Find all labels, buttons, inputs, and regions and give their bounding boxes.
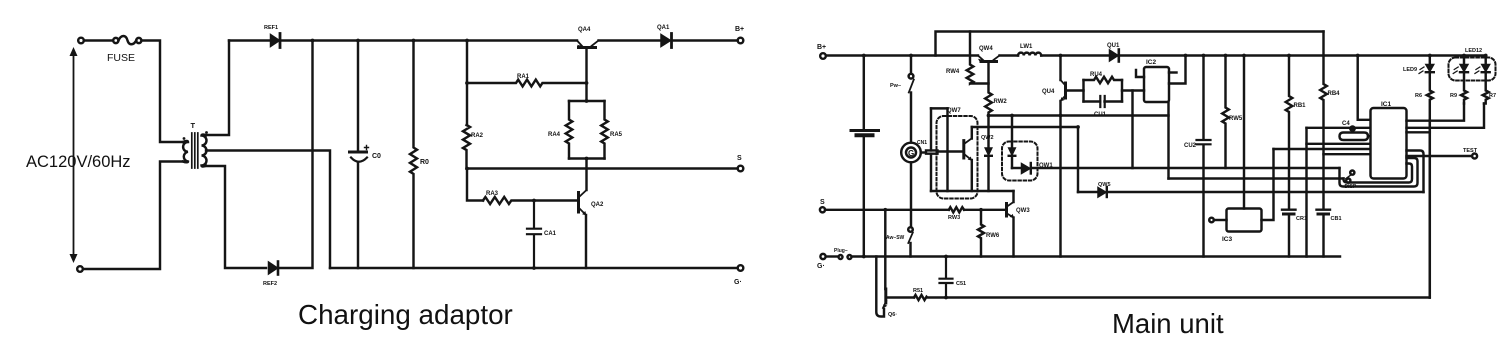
top rail: [826, 54, 978, 56]
svg-text:AC120V/60Hz: AC120V/60Hz: [26, 153, 131, 171]
inner column: [946, 108, 948, 191]
resistor network RA4 RA5 top bar: [569, 100, 605, 102]
diode QA1: [661, 35, 671, 47]
capacitor C4: [1349, 125, 1356, 132]
phase dot secondary: [205, 131, 208, 134]
CN1 column up: [930, 108, 932, 150]
svg-text:QA1: QA1: [657, 25, 670, 31]
battery B1: [863, 56, 865, 130]
capacitor CN1: [921, 151, 926, 153]
svg-text:R6: R6: [1415, 93, 1422, 99]
transformer primary winding: [183, 141, 188, 162]
svg-text:QW2: QW2: [981, 135, 994, 141]
svg-text:R0: R0: [420, 159, 429, 166]
svg-text:RA4: RA4: [548, 132, 561, 138]
transistor Q6 column: [884, 210, 886, 289]
svg-text:B+: B+: [735, 26, 744, 33]
svg-text:C51: C51: [956, 281, 966, 287]
LEFT-CIRCUIT: [26, 25, 744, 287]
diode QW5: [1098, 188, 1106, 198]
capacitor C51: [944, 255, 948, 259]
svg-text:QU1: QU1: [1107, 43, 1120, 49]
top rail QW4 to LW1: [1000, 54, 1019, 56]
svg-text:Q6·: Q6·: [888, 312, 897, 318]
long return riser: [1429, 120, 1431, 298]
emitter link line: [931, 190, 1014, 192]
svg-text:CA1: CA1: [544, 231, 557, 237]
diode QW1: [1012, 167, 1021, 169]
resistor RA2: [463, 125, 470, 169]
fuse F1: [113, 38, 118, 43]
svg-text:FUSE: FUSE: [107, 52, 135, 64]
QW7 emitter wire: [971, 160, 973, 191]
C4 loop: [1340, 133, 1369, 141]
svg-text:G: G: [908, 149, 914, 158]
phase dot primary: [183, 137, 186, 140]
QU4 emitter column: [1059, 101, 1061, 257]
svg-text:QW5: QW5: [1098, 182, 1111, 188]
diode REF2: [269, 262, 278, 274]
transistor Q6: [884, 289, 887, 303]
terminal B+: [820, 53, 826, 59]
S line with resistor RW3: [825, 209, 949, 211]
top rail QA1 to B+: [673, 39, 738, 41]
RC combo right bar: [1121, 80, 1123, 102]
capacitor CU1: [1084, 100, 1123, 102]
svg-text:CB1: CB1: [1331, 216, 1342, 222]
resistor RW4: [967, 32, 989, 84]
resistor RU4: [1084, 77, 1123, 83]
svg-text:LW1: LW1: [1020, 44, 1033, 50]
junction dots top rail: [311, 39, 315, 43]
svg-text:RW4: RW4: [946, 69, 960, 75]
transistor QU4: [1059, 56, 1061, 81]
resistor RA5: [601, 101, 608, 159]
svg-text:RB1: RB1: [1294, 103, 1307, 109]
LED10 column: [1463, 56, 1465, 65]
IC2: [1144, 67, 1169, 102]
svg-text:LED9: LED9: [1403, 67, 1417, 73]
wire primary bottom to AC bottom: [83, 162, 183, 270]
QW7 collector wire: [971, 127, 973, 139]
svg-text:QU4: QU4: [1042, 89, 1055, 95]
AC source terminal top: [78, 38, 84, 44]
inductor LW1: [1018, 53, 1041, 56]
QU4 base wire: [1066, 89, 1084, 91]
resistor R0: [410, 41, 417, 269]
loop bus2 wrap: [1344, 164, 1413, 183]
collector link line: [972, 126, 1078, 128]
diode REF1: [271, 35, 280, 47]
IC2 pin stub right: [1169, 71, 1177, 73]
AC source terminal bottom: [77, 266, 83, 272]
svg-text:IC1: IC1: [1381, 101, 1392, 108]
resistor RW6: [979, 208, 983, 212]
wire fuse to transformer primary: [142, 41, 184, 143]
IC1: [1371, 108, 1407, 179]
IC3 left terminal: [1209, 218, 1214, 223]
C4 line: [1307, 127, 1371, 129]
svg-text:RB4: RB4: [1328, 91, 1341, 97]
top rail LW1 to QU1: [1041, 54, 1109, 56]
svg-text:RA2: RA2: [471, 133, 484, 139]
TEST line: [1407, 155, 1473, 157]
motor to auto switch: [910, 162, 912, 227]
svg-text:R7: R7: [1489, 93, 1496, 99]
svg-text:QW4: QW4: [979, 46, 993, 52]
svg-text:RA5: RA5: [610, 132, 623, 138]
bottom rail right segment: [330, 267, 738, 269]
bus line 3: [1078, 191, 1097, 193]
IC3: [1227, 209, 1262, 232]
transistor QW4: [978, 56, 983, 61]
svg-text:S: S: [820, 199, 825, 206]
top rail QU1 to right end: [1120, 54, 1486, 56]
svg-text:QW3: QW3: [1016, 208, 1030, 214]
transformer secondary winding: [202, 135, 207, 167]
terminal G-: [738, 265, 744, 271]
top rail left segment: [229, 39, 269, 41]
diode QW2: [985, 148, 992, 155]
AC source arrow: [73, 50, 75, 260]
terminal G- with plug: [820, 254, 825, 259]
wire secondary bottom down to REF2 rail: [206, 166, 266, 268]
top feedback line: [936, 32, 1324, 56]
svg-text:TEST: TEST: [1463, 148, 1478, 154]
QA2 emitter to bottom rail: [585, 215, 587, 268]
capacitor C0: [357, 41, 359, 151]
svg-text:REF2: REF2: [263, 281, 277, 287]
transistor QW3: [1005, 204, 1008, 217]
dashed box QW1: [1002, 142, 1038, 181]
capacitor CU2: [1202, 56, 1204, 140]
svg-text:Aw–SW: Aw–SW: [886, 235, 905, 241]
resistor RA1: [467, 80, 587, 87]
bus line1: [1032, 167, 1340, 169]
Q6 emitter return: [876, 257, 884, 317]
bus line 1a (mid): [989, 114, 1169, 116]
bus line 3 cont: [1108, 191, 1424, 193]
RA4 RA5 bottom bar: [569, 157, 605, 159]
QW3 emitter: [1012, 218, 1014, 257]
QW3 collector: [1012, 191, 1014, 202]
svg-text:R9: R9: [1450, 93, 1457, 99]
transistor QW7: [962, 141, 965, 158]
top rail QA4 to QA1: [599, 39, 661, 41]
top rail to QA4: [282, 39, 578, 41]
dashed box LED12: [1449, 58, 1496, 81]
motor G: [901, 143, 921, 163]
RC combo RU4/CU1 left bar: [1082, 80, 1084, 102]
LED11: [1482, 65, 1490, 72]
wire secondary mid to bottom rail corner: [206, 151, 330, 269]
svg-text:QA2: QA2: [591, 202, 604, 208]
QW4 base column / resistor RW2: [985, 62, 992, 149]
svg-text:RA1: RA1: [517, 74, 530, 80]
LED9 column: [1429, 56, 1431, 65]
resistor RA3: [483, 197, 534, 204]
svg-text:IC2: IC2: [1146, 59, 1157, 66]
IC1 right comb pin C: [1407, 131, 1430, 133]
svg-text:CU2: CU2: [1184, 143, 1197, 149]
resistor R7: [1483, 73, 1489, 104]
resistor R51: [914, 295, 946, 300]
resistor RA4: [566, 101, 573, 159]
wire REF2 to riser: [280, 41, 313, 269]
svg-text:REF1: REF1: [264, 25, 278, 31]
LED10: [1460, 65, 1468, 72]
svg-text:RW2: RW2: [994, 99, 1008, 105]
resistor R6: [1427, 73, 1433, 298]
loop bus3 wrap: [1407, 151, 1424, 193]
IC2 left stub: [1136, 70, 1144, 77]
svg-text:QA4: QA4: [578, 27, 591, 33]
QA4 base column: [585, 48, 587, 102]
svg-text:S: S: [737, 155, 742, 162]
wire AC top to fuse: [84, 39, 113, 41]
IC1 pin lines: [1307, 143, 1371, 145]
resistor R9: [1461, 73, 1467, 104]
svg-text:RW6: RW6: [986, 233, 1000, 239]
wire to IC2: [1122, 89, 1144, 91]
svg-text:T: T: [191, 121, 196, 130]
QA2 collector column: [585, 159, 587, 191]
bus line 3 riser: [1077, 127, 1079, 192]
IC1 right comb pin B: [1407, 104, 1485, 128]
IC2 bottom feed: [1167, 102, 1169, 179]
column x1306: [1305, 128, 1307, 257]
svg-text:RW5: RW5: [1229, 116, 1243, 122]
RIGHT-CIRCUIT: [817, 32, 1496, 319]
long sense line to right: [946, 296, 1430, 298]
svg-text:LED12: LED12: [1465, 48, 1482, 54]
LED9: [1426, 65, 1434, 72]
column x1357 from rail: [1358, 56, 1371, 120]
IC1 right comb pin A: [1407, 104, 1465, 121]
DISP switch: [1350, 171, 1354, 175]
svg-text:G·: G·: [817, 263, 825, 270]
svg-text:C4: C4: [1342, 121, 1350, 127]
resistor RW5: [1222, 56, 1229, 169]
svg-text:G·: G·: [734, 279, 742, 286]
svg-text:DISP: DISP: [1345, 184, 1357, 190]
resistor RB4: [1320, 32, 1327, 210]
diode QU1: [1110, 50, 1119, 61]
C0 plus mark: [365, 146, 369, 150]
svg-text:RU4: RU4: [1090, 72, 1103, 78]
wire RA3 to QA2 base: [534, 199, 579, 201]
svg-text:B+: B+: [817, 44, 826, 51]
resistor RB1: [1286, 56, 1293, 210]
svg-text:RW3: RW3: [948, 215, 960, 221]
bus line 2: [1169, 177, 1344, 179]
junction RA1 left: [465, 81, 469, 85]
branch down from RC wire: [1131, 91, 1133, 169]
U-link top: [931, 107, 948, 109]
transformer T core: [192, 133, 198, 168]
wire secondary top to top rail: [206, 41, 229, 136]
S output line: [467, 167, 738, 169]
IC3 right pin: [1262, 149, 1274, 220]
CN1 column down: [930, 154, 932, 191]
svg-text:Main unit: Main unit: [1112, 308, 1224, 339]
svg-text:Pw–: Pw–: [890, 83, 901, 89]
dashed box QW7: [937, 116, 978, 199]
svg-text:CN1: CN1: [917, 140, 927, 146]
loop bus1 wrap: [1340, 158, 1418, 187]
terminal S: [738, 166, 744, 172]
svg-text:QW7: QW7: [947, 108, 961, 114]
svg-text:RA3: RA3: [486, 191, 499, 197]
power switch PW: [910, 56, 912, 74]
capacitor CR1: [1282, 208, 1296, 210]
svg-text:C0: C0: [372, 153, 381, 160]
column to IC3: [1243, 56, 1245, 209]
terminal B+: [738, 38, 744, 44]
svg-text:Charging adaptor: Charging adaptor: [298, 299, 513, 330]
svg-text:IC3: IC3: [1222, 236, 1233, 243]
LED11 column: [1484, 56, 1486, 65]
svg-text:R51: R51: [913, 288, 923, 294]
terminal S: [820, 207, 825, 212]
transistor QA2: [577, 193, 580, 213]
capacitor CB1: [1317, 208, 1331, 210]
capacitor CA1: [527, 201, 541, 269]
transistor QA4: [577, 41, 582, 47]
diode QW2b: [1011, 116, 1013, 149]
column RA2 to RA3: [467, 169, 483, 201]
left bias column: [466, 41, 468, 126]
svg-text:Plug–: Plug–: [834, 248, 848, 254]
IC2 right pin to rail: [1169, 56, 1186, 84]
